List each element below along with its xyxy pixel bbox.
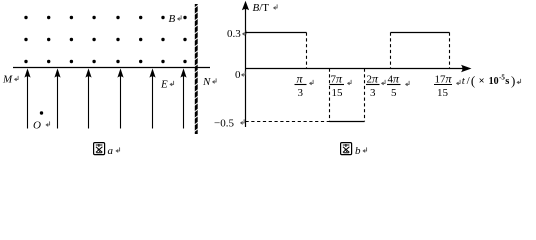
svg-text:s: s: [505, 76, 509, 87]
svg-text:M: M: [2, 73, 13, 85]
svg-text:N: N: [202, 76, 211, 88]
t axis: [246, 68, 465, 70]
svg-text:17π: 17π: [435, 72, 453, 86]
svg-text:0.3: 0.3: [227, 28, 241, 40]
svg-text:O: O: [33, 120, 41, 132]
dashed drop at pi/3: [306, 33, 308, 69]
svg-text:7π: 7π: [331, 72, 344, 86]
svg-text:B: B: [169, 13, 176, 25]
point O: [40, 111, 43, 114]
svg-text:−0.5: −0.5: [214, 117, 234, 129]
svg-text:15: 15: [332, 87, 344, 99]
svg-text:(: (: [471, 73, 475, 88]
svg-text:2π: 2π: [367, 72, 380, 86]
solid 0.3 segment 4pi/5..17pi/15: [391, 32, 450, 34]
svg-text:0: 0: [235, 69, 241, 81]
svg-text:15: 15: [437, 87, 449, 99]
svg-text:a: a: [108, 145, 114, 157]
wall N (hatched barrier): [194, 4, 198, 134]
solid -0.5 segment 7pi/15..2pi/3: [330, 121, 365, 123]
waveform: solid 0.3 segment 0..pi/3: [246, 32, 307, 34]
dashed drop at 17pi/15: [449, 33, 451, 69]
svg-text:B/T: B/T: [253, 2, 270, 14]
caption tu-b (figure b): [341, 143, 352, 155]
svg-text:3: 3: [298, 87, 304, 99]
svg-text:E: E: [160, 79, 168, 91]
svg-text:π: π: [297, 72, 304, 86]
dashed rise at 2pi/3: [364, 69, 366, 122]
svg-text:b: b: [355, 145, 361, 157]
y axis: [245, 6, 247, 127]
dashed -0.5 reference line: [246, 121, 330, 123]
svg-text:5: 5: [391, 87, 397, 99]
svg-text:×: ×: [479, 76, 485, 87]
svg-text:4π: 4π: [388, 72, 401, 86]
dashed drop at 7pi/15: [329, 69, 331, 122]
dashed rise at 4pi/5: [390, 33, 392, 69]
caption tu-a (figure a): [94, 143, 105, 155]
svg-text:10: 10: [489, 76, 499, 87]
magnetic field dot grid (B out of page): [24, 16, 186, 63]
svg-text:3: 3: [370, 87, 376, 99]
plate line MN: [13, 67, 210, 69]
svg-text:): ): [511, 73, 515, 88]
electric field arrows (pointing up): [24, 68, 186, 128]
